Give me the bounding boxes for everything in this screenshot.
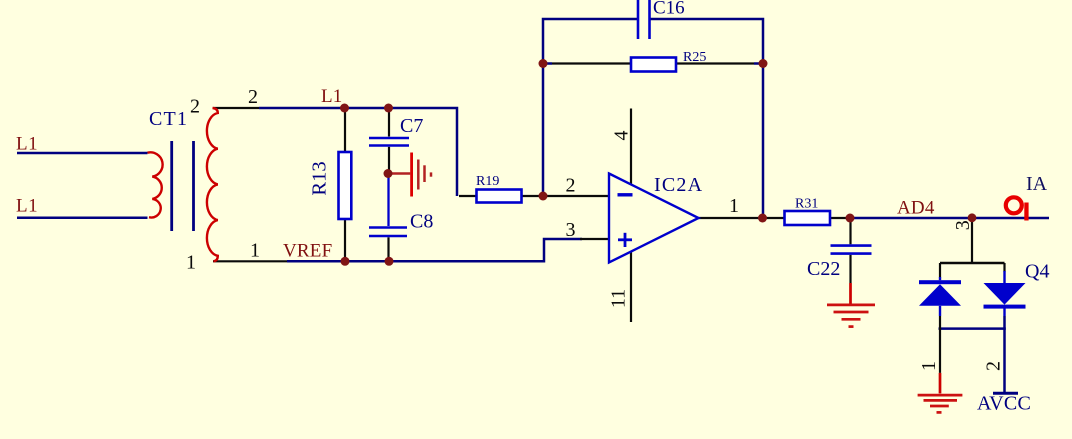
svg-text:Q4: Q4 — [1025, 261, 1049, 283]
svg-text:1: 1 — [250, 240, 260, 262]
svg-text:3: 3 — [952, 220, 974, 230]
svg-text:VREF: VREF — [283, 241, 332, 262]
svg-text:2: 2 — [566, 175, 576, 197]
svg-text:11: 11 — [608, 289, 630, 308]
svg-text:2: 2 — [190, 96, 200, 118]
svg-text:AVCC: AVCC — [977, 393, 1031, 415]
svg-text:IC2A: IC2A — [654, 174, 703, 196]
svg-text:R19: R19 — [476, 174, 499, 189]
svg-text:C16: C16 — [653, 0, 685, 19]
svg-text:AD4: AD4 — [897, 198, 935, 219]
svg-text:L1: L1 — [16, 134, 38, 155]
svg-text:L1: L1 — [321, 86, 343, 107]
svg-text:C22: C22 — [807, 258, 840, 280]
svg-text:1: 1 — [918, 361, 940, 371]
svg-text:3: 3 — [566, 219, 576, 241]
svg-text:2: 2 — [983, 361, 1005, 371]
svg-text:2: 2 — [248, 86, 258, 108]
svg-text:R25: R25 — [683, 50, 706, 65]
svg-text:CT1: CT1 — [149, 108, 188, 130]
svg-text:4: 4 — [611, 131, 633, 141]
svg-text:C8: C8 — [410, 211, 433, 233]
svg-text:1: 1 — [186, 252, 196, 274]
svg-text:1: 1 — [729, 195, 739, 217]
svg-text:IA: IA — [1026, 173, 1048, 195]
svg-text:L1: L1 — [16, 196, 38, 217]
svg-text:C7: C7 — [400, 115, 423, 137]
svg-text:R31: R31 — [795, 197, 818, 212]
svg-text:R13: R13 — [309, 161, 331, 195]
